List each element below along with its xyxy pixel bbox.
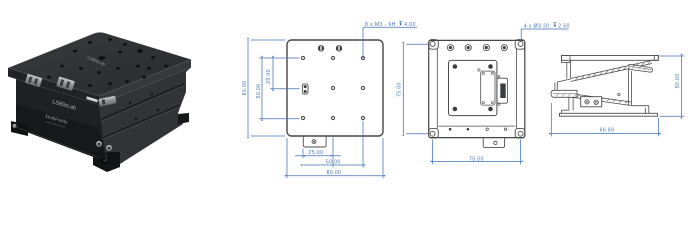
svg-text:66.69: 66.69	[600, 128, 615, 134]
svg-text:4.00: 4.00	[404, 22, 416, 28]
svg-text:75.00: 75.00	[396, 82, 402, 97]
svg-text:4 x Ø3.20: 4 x Ø3.20	[524, 23, 550, 29]
svg-text:25.00: 25.00	[309, 150, 324, 156]
svg-text:50.00: 50.00	[326, 160, 341, 166]
svg-text:50.00: 50.00	[675, 74, 681, 89]
svg-text:75.00: 75.00	[469, 156, 484, 162]
svg-text:8 x M3 - 6H: 8 x M3 - 6H	[365, 22, 396, 28]
svg-text:25.00: 25.00	[266, 69, 272, 84]
svg-text:80.00: 80.00	[327, 170, 342, 176]
svg-text:2.50: 2.50	[558, 23, 570, 29]
svg-text:50.00: 50.00	[256, 84, 262, 99]
svg-text:80.00: 80.00	[242, 81, 248, 96]
